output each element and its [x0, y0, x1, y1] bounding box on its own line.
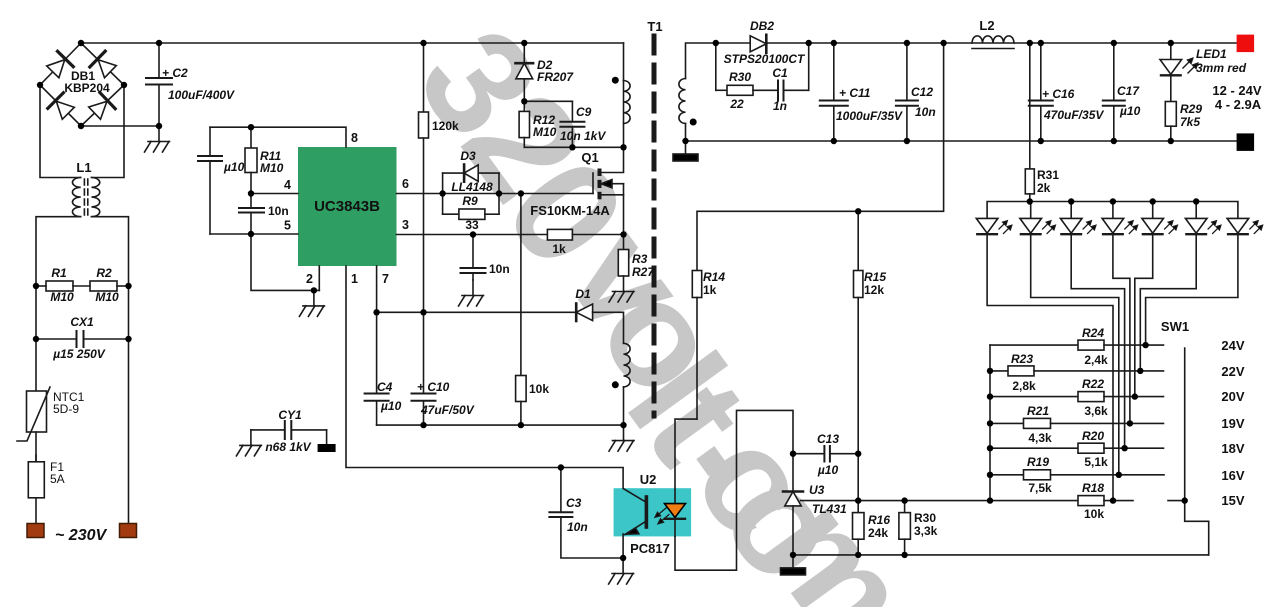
node row19 bundle — [1127, 420, 1133, 426]
wire ladder left rail — [989, 345, 991, 501]
node D3 right — [496, 190, 502, 196]
node C16 bottom — [1038, 138, 1044, 144]
svg-text:10n: 10n — [268, 204, 289, 218]
resistor R21 row 19V — [990, 418, 1164, 428]
node R1 left — [33, 283, 39, 289]
svg-text:U2: U2 — [640, 472, 657, 487]
svg-text:+ C11: + C11 — [839, 86, 871, 100]
svg-text:33: 33 — [465, 218, 479, 232]
resistor R3 current sense — [618, 235, 628, 277]
svg-text:µ10: µ10 — [223, 160, 245, 174]
watermark 320volt.com — [387, 0, 946, 607]
capacitor C12 — [896, 43, 918, 141]
svg-text:TL431: TL431 — [812, 502, 847, 516]
node R16 bottom — [855, 552, 861, 558]
svg-text:STPS20100CT: STPS20100CT — [724, 52, 806, 66]
svg-text:R27: R27 — [632, 265, 655, 279]
svg-text:R22: R22 — [1082, 377, 1104, 391]
svg-text:SW1: SW1 — [1161, 319, 1189, 334]
node LED rail R31 — [1027, 198, 1033, 204]
node CX1 left — [33, 336, 39, 342]
node pin2 gnd — [311, 287, 317, 293]
node REF R15 — [855, 497, 861, 503]
opto LED inside U2 — [665, 489, 686, 537]
bridge diode upper-right — [90, 51, 117, 78]
svg-text:24k: 24k — [868, 526, 888, 540]
svg-text:1k: 1k — [703, 283, 717, 297]
svg-text:U3: U3 — [809, 483, 825, 497]
svg-text:R15: R15 — [864, 270, 886, 284]
node C1 right — [806, 40, 812, 46]
pin 2 stub — [318, 266, 320, 290]
svg-text:KBP204: KBP204 — [64, 81, 110, 95]
svg-text:Q1: Q1 — [581, 150, 598, 165]
svg-text:C9: C9 — [576, 105, 592, 119]
node rail 16V — [987, 472, 993, 478]
svg-text:µ10: µ10 — [817, 463, 839, 477]
wire LED1 cathode route — [987, 234, 1113, 500]
node D2 top — [521, 40, 527, 46]
svg-text:5D-9: 5D-9 — [53, 402, 79, 416]
transformer T1 primary winding — [624, 81, 631, 124]
capacitor C13 — [793, 446, 858, 462]
node REF R30 — [901, 497, 907, 503]
svg-text:22: 22 — [729, 97, 744, 111]
diode D1 — [576, 304, 623, 344]
wire pin 3 row — [397, 234, 548, 236]
capacitor C2 — [146, 43, 172, 126]
inductor L1 right winding — [92, 178, 100, 217]
svg-text:6: 6 — [402, 177, 409, 191]
svg-text:DB2: DB2 — [750, 19, 774, 33]
resistor R23 row 22V — [990, 366, 1164, 376]
capacitor 10n (RT/CT) — [239, 194, 264, 235]
wire LED5 cathode route — [1135, 234, 1153, 396]
wire opto LED cathode to TL431 — [675, 410, 793, 570]
svg-text:R14: R14 — [703, 270, 725, 284]
svg-text:16V: 16V — [1221, 468, 1244, 483]
ground (C2) — [145, 126, 170, 152]
resistor R11 — [245, 127, 257, 193]
svg-text:2: 2 — [306, 272, 313, 286]
node C10 vcc — [420, 309, 426, 315]
switch SW1 pole — [1185, 348, 1209, 555]
node rail 19V — [987, 420, 993, 426]
led D-1 — [976, 218, 998, 234]
node CX1 right — [125, 336, 131, 342]
svg-text:10n: 10n — [567, 520, 588, 534]
svg-text:LED1: LED1 — [1196, 47, 1227, 61]
resistor R18 row 15V — [1078, 496, 1185, 506]
svg-text:1n: 1n — [773, 99, 787, 113]
svg-text:PC817: PC817 — [630, 541, 670, 556]
capacitor 10n on pin3 — [461, 235, 486, 281]
transformer T1 secondary winding — [679, 79, 686, 124]
node LED rail 5 — [1150, 198, 1156, 204]
svg-text:C1: C1 — [772, 66, 788, 80]
capacitor C1 — [778, 43, 809, 101]
svg-text:7,5k: 7,5k — [1028, 481, 1052, 495]
node rail 15V — [987, 497, 993, 503]
wire secondary ground rail — [686, 140, 1237, 142]
svg-text:C12: C12 — [911, 85, 933, 99]
svg-text:470uF/35V: 470uF/35V — [1043, 108, 1104, 122]
resistor R19 row 16V — [990, 470, 1164, 480]
svg-text:CX1: CX1 — [70, 315, 94, 329]
node SW1 pole — [1182, 497, 1188, 503]
capacitor CX1 — [36, 331, 129, 347]
node C9 bottom — [569, 144, 575, 150]
svg-text:R18: R18 — [1082, 481, 1104, 495]
svg-text:R3: R3 — [632, 252, 648, 266]
wire top rail corner into primary — [623, 43, 625, 81]
resistor R1 — [46, 281, 73, 291]
svg-text:R30: R30 — [729, 70, 751, 84]
svg-text:47uF/50V: 47uF/50V — [420, 403, 475, 417]
resistor 1k — [547, 229, 572, 240]
node C13 right — [855, 451, 861, 457]
wire LED7 cathode route — [1146, 234, 1238, 345]
node row20 bundle — [1132, 393, 1138, 399]
node bridge right — [121, 82, 127, 88]
ground bar (CY1 right) — [318, 444, 336, 452]
node row15 bundle — [1110, 497, 1116, 503]
resistor R24 row 24V — [990, 340, 1164, 350]
svg-text:C17: C17 — [1117, 84, 1140, 98]
svg-text:R20: R20 — [1082, 429, 1104, 443]
led D-2 — [1020, 202, 1042, 235]
resistor R2 — [90, 281, 117, 291]
ground bar (TL431) — [781, 555, 806, 575]
wire sense tap column — [697, 43, 944, 271]
svg-text:R24: R24 — [1082, 326, 1104, 340]
node pin5 — [248, 231, 254, 237]
led D-3 — [1060, 202, 1082, 235]
wire right AC column — [92, 85, 125, 178]
svg-text:UC3843B: UC3843B — [314, 198, 380, 215]
node LED rail 3 — [1068, 198, 1074, 204]
svg-text:2,4k: 2,4k — [1084, 353, 1108, 367]
svg-text:24V: 24V — [1221, 338, 1244, 353]
node row16 bundle — [1116, 472, 1122, 478]
LED row arrows — [999, 221, 1263, 234]
svg-text:C3: C3 — [566, 496, 582, 510]
inductor L2 — [972, 36, 1014, 49]
ground (10n pin3) — [459, 280, 484, 306]
transformer T1 aux winding — [624, 343, 631, 387]
node C10 bottom — [420, 422, 426, 428]
fuse F1 — [28, 455, 44, 524]
resistor R14 — [692, 271, 701, 420]
capacitor C16 — [1029, 43, 1053, 141]
wire bottom feedback rail — [793, 554, 1209, 556]
ground (pin 2) — [299, 290, 324, 316]
wire LED4 cathode route — [1113, 234, 1130, 423]
transistor Q1 mosfet — [593, 147, 624, 234]
wire aux bottom — [623, 387, 625, 425]
resistor R31 column — [1025, 43, 1034, 202]
L1 core dashes — [83, 179, 85, 216]
node C16 top — [1038, 40, 1044, 46]
wire snubber bottom rail — [524, 146, 623, 148]
primary phase dot — [612, 77, 619, 84]
wire 1k to source — [572, 234, 623, 236]
svg-text:R31: R31 — [1037, 168, 1059, 182]
ground (R3) — [609, 276, 634, 302]
wire drain column to primary — [623, 81, 625, 148]
node C2 top — [156, 40, 162, 46]
wire LED2 cathode route — [1031, 234, 1119, 475]
capacitor CY1 — [251, 421, 327, 444]
svg-text:15V: 15V — [1221, 493, 1244, 508]
svg-text:7k5: 7k5 — [1180, 115, 1200, 129]
resistor 120k startup column — [419, 43, 429, 312]
ground (CY1 left) — [236, 430, 261, 456]
svg-text:7: 7 — [382, 272, 389, 286]
svg-text:3,6k: 3,6k — [1084, 404, 1108, 418]
svg-text:20V: 20V — [1221, 389, 1244, 404]
svg-text:M10: M10 — [95, 290, 119, 304]
wire secondary top — [686, 43, 1237, 79]
node Q1 source — [620, 231, 626, 237]
resistor R30 snubber — [716, 43, 778, 95]
wire pin5 to pin2 ground run — [251, 234, 319, 290]
svg-text:R19: R19 — [1027, 455, 1049, 469]
thermistor NTC1 — [17, 387, 50, 441]
transformer T1 core dashed line — [652, 36, 657, 416]
node pin7 vcc — [373, 309, 379, 315]
svg-text:4: 4 — [284, 178, 291, 192]
svg-text:C13: C13 — [817, 432, 839, 446]
node rail 22V — [987, 368, 993, 374]
wire LED6 cathode route — [1140, 234, 1196, 371]
svg-text:+ C10: + C10 — [417, 380, 450, 394]
svg-text:10n: 10n — [915, 105, 936, 119]
svg-text:+ C16: + C16 — [1042, 87, 1075, 101]
svg-text:1k: 1k — [552, 242, 566, 256]
LED1 indicator — [1160, 43, 1182, 102]
capacitor C9 — [524, 101, 584, 147]
svg-text:5,1k: 5,1k — [1084, 455, 1108, 469]
terminal AC left — [27, 524, 44, 538]
svg-text:5A: 5A — [50, 472, 65, 486]
opto light arrows — [655, 508, 669, 524]
resistor R29 — [1165, 102, 1176, 142]
wire REF row — [801, 500, 1079, 502]
wire pin 6 row — [397, 193, 594, 195]
node bridge left — [37, 82, 43, 88]
node rail 20V — [987, 393, 993, 399]
node LED rail 4 — [1110, 198, 1116, 204]
svg-text:µ10: µ10 — [1119, 104, 1141, 118]
svg-text:100uF/400V: 100uF/400V — [168, 88, 235, 102]
svg-text:2k: 2k — [1037, 181, 1051, 195]
svg-text:12k: 12k — [864, 283, 884, 297]
svg-text:M10: M10 — [533, 125, 557, 139]
svg-text:L2: L2 — [979, 18, 994, 33]
svg-text:FS10KM-14A: FS10KM-14A — [530, 203, 610, 218]
node C12 bottom — [904, 138, 910, 144]
svg-text:12 - 24V: 12 - 24V — [1212, 83, 1261, 98]
node row18 bundle — [1121, 445, 1127, 451]
svg-text:R9: R9 — [462, 194, 478, 208]
node rail 18V — [987, 445, 993, 451]
wire pin 5 — [210, 233, 298, 235]
diode DB2 — [750, 35, 766, 53]
wire Vcc rail — [377, 311, 577, 313]
led D-5 — [1142, 202, 1164, 235]
node R31 top — [1027, 40, 1033, 46]
wire Vcc bottom rail — [377, 424, 624, 426]
node R2 right — [125, 283, 131, 289]
diode D3 with bracket — [443, 165, 499, 215]
node R15 top — [855, 208, 861, 214]
bridge diode upper-left — [47, 51, 74, 78]
capacitor C17 — [1103, 43, 1125, 141]
svg-text:R21: R21 — [1027, 404, 1049, 418]
node 10k top — [518, 190, 524, 196]
svg-text:R16: R16 — [868, 513, 890, 527]
ground (aux rail) — [609, 425, 634, 451]
terminal output minus — [1237, 133, 1255, 151]
wire L1 right bottom — [92, 217, 129, 286]
wire right rail down — [128, 286, 130, 524]
node LED1 top — [1168, 40, 1174, 46]
LED1 arrows — [1183, 58, 1198, 73]
wire NTC to F1 — [35, 432, 37, 462]
svg-text:C4: C4 — [377, 380, 393, 394]
svg-text:D1: D1 — [575, 287, 591, 301]
resistor R12 — [519, 101, 529, 147]
svg-text:19V: 19V — [1221, 416, 1244, 431]
shunt regulator U3 TL431 — [783, 492, 803, 555]
svg-text:2,8k: 2,8k — [1012, 379, 1036, 393]
wire pin 4 — [251, 193, 298, 195]
wire LED anode rail — [987, 202, 1238, 219]
svg-text:1000uF/35V: 1000uF/35V — [836, 109, 903, 123]
node C11 bottom — [831, 138, 837, 144]
svg-text:L1: L1 — [76, 160, 91, 175]
svg-text:1: 1 — [351, 272, 358, 286]
node C12 top — [904, 40, 910, 46]
node R30 top — [713, 40, 719, 46]
svg-text:3mm red: 3mm red — [1196, 61, 1247, 75]
U2 ground — [609, 558, 634, 584]
wire LED3 cathode route — [1071, 234, 1124, 448]
svg-text:D3: D3 — [460, 149, 476, 163]
capacitor C10 — [412, 312, 436, 425]
svg-text:M10: M10 — [260, 161, 284, 175]
wire bridge minus to C2 bottom — [81, 125, 159, 127]
svg-text:10n 1kV: 10n 1kV — [560, 129, 606, 143]
node pin8 rail — [248, 124, 254, 130]
capacitor C3 — [549, 468, 623, 559]
svg-text:n68 1kV: n68 1kV — [265, 440, 311, 454]
svg-text:LL4148: LL4148 — [451, 180, 493, 194]
node row24 bundle — [1142, 342, 1148, 348]
node D2 R12 C9 — [521, 98, 527, 104]
pin 1 stub long wire to optocoupler — [346, 266, 623, 489]
svg-text:5: 5 — [284, 219, 291, 233]
wire left rail down — [35, 286, 37, 391]
node U2 emitter gnd — [620, 555, 626, 561]
svg-text:FR207: FR207 — [537, 70, 574, 84]
node 10n pin3 — [470, 231, 476, 237]
optocoupler U2 PC817 — [614, 488, 692, 558]
node D3 left — [439, 190, 445, 196]
svg-text:10k: 10k — [529, 382, 549, 396]
resistor R16 — [853, 513, 865, 555]
ground bar (secondary) — [673, 141, 698, 161]
pin 7 stub — [376, 266, 378, 312]
svg-text:4 - 2.9A: 4 - 2.9A — [1215, 97, 1262, 112]
node bridge bottom — [78, 123, 84, 129]
svg-text:120k: 120k — [432, 119, 459, 133]
led D-4 — [1102, 202, 1124, 235]
node pin4 — [248, 190, 254, 196]
node R29 bottom — [1168, 138, 1174, 144]
diode D2 — [516, 43, 534, 101]
led D-7 — [1227, 218, 1249, 234]
node TL431 anode — [790, 552, 796, 558]
capacitor Vref filter u10 — [198, 127, 222, 234]
svg-text:µ15 250V: µ15 250V — [52, 347, 106, 361]
svg-text:T1: T1 — [647, 19, 662, 34]
pin 8 stub and top rail — [210, 127, 346, 147]
node C17 top — [1111, 40, 1117, 46]
svg-text:R29: R29 — [1180, 102, 1202, 116]
resistor R30 (3,3k) — [899, 501, 911, 555]
node 120k top — [420, 40, 426, 46]
node sec gnd — [682, 138, 688, 144]
svg-text:+ C2: + C2 — [162, 66, 188, 80]
node LED rail 6 — [1193, 198, 1199, 204]
node C11 top — [831, 40, 837, 46]
resistor R15 — [854, 211, 863, 512]
svg-text:µ10: µ10 — [380, 399, 402, 413]
svg-text:CY1: CY1 — [278, 408, 302, 422]
terminal AC right — [120, 524, 137, 538]
node sense top — [940, 40, 946, 46]
wire R14 to opto LED anode — [675, 419, 697, 488]
bridge rectifier DB1 diamond wires — [40, 43, 124, 126]
node bridge top — [78, 40, 84, 46]
node drain rail — [620, 144, 626, 150]
wire secondary bottom — [685, 124, 687, 142]
secondary phase dot — [690, 119, 697, 126]
node C17 bottom — [1111, 138, 1117, 144]
capacitor C11 — [820, 43, 848, 141]
resistor R9 — [443, 209, 499, 219]
wire R1-R2 row — [36, 285, 46, 287]
svg-text:10n: 10n — [489, 262, 510, 276]
node aux gnd — [620, 422, 626, 428]
svg-text:R2: R2 — [96, 266, 112, 280]
op-amp U1 UC3843B body — [298, 147, 397, 266]
svg-text:22V: 22V — [1221, 364, 1244, 379]
node C13 left — [790, 451, 796, 457]
svg-text:R1: R1 — [51, 266, 67, 280]
node row22 bundle — [1137, 368, 1143, 374]
node C3 top — [558, 464, 564, 470]
wire L1 left bottom — [36, 217, 81, 286]
svg-text:3: 3 — [402, 218, 409, 232]
svg-text:3,3k: 3,3k — [914, 524, 938, 538]
wire HV+ top rail — [81, 42, 624, 44]
led D-6 — [1185, 202, 1207, 235]
bridge diode lower-right — [89, 93, 116, 120]
svg-text:R30: R30 — [914, 511, 936, 525]
